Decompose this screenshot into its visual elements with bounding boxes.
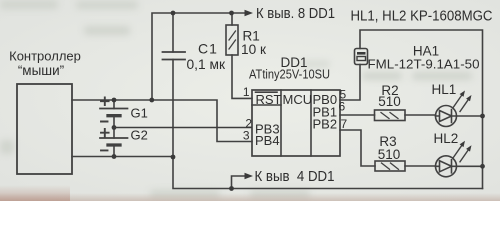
svg-text:10 к: 10 к <box>241 42 266 57</box>
svg-text:510: 510 <box>378 147 401 162</box>
svg-text:HL1: HL1 <box>432 82 457 97</box>
svg-text:FML-12T-9.1A1-50: FML-12T-9.1A1-50 <box>368 57 480 72</box>
svg-text:ATtiny25V-10SU: ATtiny25V-10SU <box>249 67 330 82</box>
svg-text:К выв. 8 DD1: К выв. 8 DD1 <box>256 6 335 22</box>
svg-text:HL1, HL2 KP-1608MGC: HL1, HL2 KP-1608MGC <box>351 9 493 25</box>
svg-text:“мыши”: “мыши” <box>18 63 64 78</box>
svg-text:1: 1 <box>243 85 250 99</box>
svg-text:RST: RST <box>256 92 282 107</box>
svg-text:3: 3 <box>243 129 250 143</box>
svg-text:510: 510 <box>378 94 401 109</box>
svg-text:К выв 4 DD1: К выв 4 DD1 <box>255 169 335 185</box>
svg-text:Контроллер: Контроллер <box>9 49 81 64</box>
svg-text:7: 7 <box>341 117 348 131</box>
svg-text:0,1 мк: 0,1 мк <box>187 57 226 72</box>
svg-text:6: 6 <box>339 100 346 114</box>
svg-text:MCU: MCU <box>283 92 313 107</box>
svg-text:G2: G2 <box>131 128 148 143</box>
svg-text:PB4: PB4 <box>255 133 280 148</box>
svg-text:PB2: PB2 <box>313 116 338 131</box>
svg-text:C1: C1 <box>198 41 218 57</box>
svg-text:G1: G1 <box>131 106 148 121</box>
svg-text:HL2: HL2 <box>434 131 459 146</box>
